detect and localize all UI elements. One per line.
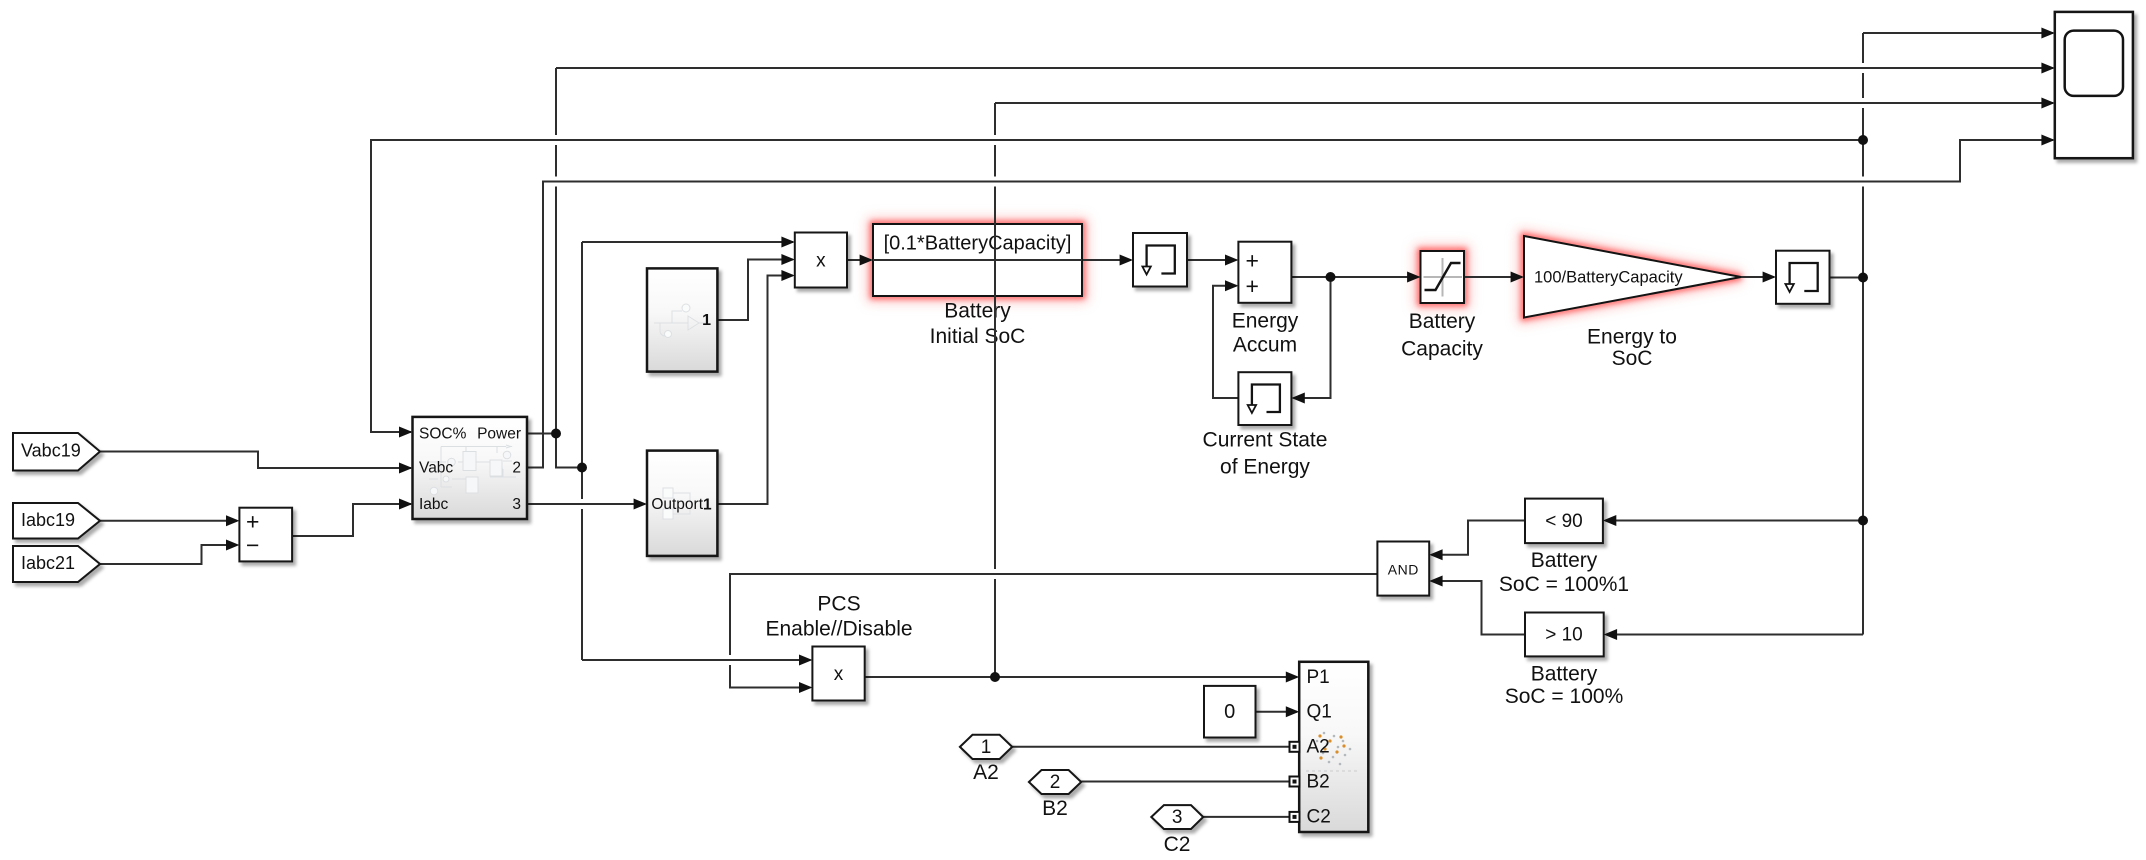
wire SoC feedback vertical trunk x=1863	[1862, 33, 1864, 635]
CROSSOVER PATCHES	[549, 63, 1870, 665]
GLOW LAYER	[873, 224, 1741, 318]
svg-text:B2: B2	[1042, 797, 1068, 820]
arrow into SOC% input	[399, 427, 413, 438]
svg-text:PCS: PCS	[817, 593, 860, 616]
logic block AND	[1377, 542, 1429, 596]
svg-text:Energy: Energy	[1232, 310, 1299, 333]
product block x top	[795, 233, 847, 288]
sum block Energy Accum	[1238, 242, 1291, 303]
arrow into accum in2	[1225, 280, 1238, 291]
svg-text:Iabc: Iabc	[419, 496, 449, 513]
node SoC trunk lower branch	[1858, 516, 1868, 526]
memory block 1	[1133, 233, 1187, 287]
wire hexport1 to A2	[1012, 746, 1291, 748]
node SoC trunk top branch	[1858, 135, 1868, 145]
arrow into gain	[1511, 272, 1524, 283]
arrow into Vabc input	[399, 463, 413, 474]
arrow into scope in3	[2041, 98, 2054, 109]
crossover at 582,504	[575, 499, 589, 509]
svg-text:2: 2	[1050, 772, 1061, 793]
wire Outport1 output to product input 3	[718, 276, 794, 505]
wire P1 branch vertical x=995	[994, 103, 996, 677]
svg-text:Battery: Battery	[944, 300, 1011, 323]
crossover at 730,660	[723, 655, 737, 665]
svg-text:Vabc19: Vabc19	[21, 441, 81, 461]
ARROWHEADS	[226, 28, 2055, 822]
svg-text:Current State: Current State	[1203, 429, 1328, 452]
arrow into memory3	[1763, 272, 1776, 283]
arrow into scope in2	[2041, 63, 2054, 74]
svg-text:Battery: Battery	[1531, 549, 1598, 572]
svg-text:Initial SoC: Initial SoC	[930, 325, 1026, 348]
arrow into memory1	[1120, 255, 1133, 266]
arrow into P1	[1286, 672, 1299, 683]
compare block greater than 10	[1525, 613, 1604, 657]
arrow into product in1	[781, 237, 794, 248]
label Battery SoC = 100%1	[1499, 549, 1629, 596]
saturation block Battery Capacity with red glow	[1421, 251, 1465, 303]
node Power to PCS branch	[577, 463, 587, 473]
label Battery Capacity	[1401, 310, 1483, 360]
memory block 3	[1776, 251, 1830, 304]
node accum output branch	[1326, 272, 1336, 282]
crossover at 995,574 repaint	[988, 569, 1002, 579]
svg-text:−: −	[246, 532, 259, 558]
port square C2	[1290, 812, 1300, 822]
svg-text:Power: Power	[477, 425, 521, 442]
svg-text:Vabc: Vabc	[419, 459, 453, 476]
label Battery Initial SoC	[930, 300, 1026, 349]
svg-text:Battery: Battery	[1409, 310, 1476, 333]
scope block	[2055, 12, 2133, 158]
crossover at 556,181.5	[549, 177, 563, 187]
wire P1 branch to scope input 3	[995, 102, 2053, 104]
constant zero block	[1204, 686, 1256, 738]
wire Iabc19 to sum plus input	[100, 520, 237, 522]
arrow into product in2	[781, 254, 794, 265]
crossover at 995,181.5	[988, 177, 1002, 187]
wire hexport2 to B2	[1081, 781, 1291, 783]
product block x PCS	[812, 647, 864, 701]
wire hexport3 to C2	[1203, 816, 1291, 818]
Outport1 block	[647, 451, 717, 556]
crossover at 995,140 repaint	[988, 135, 1002, 145]
node SoC trunk mid branch	[1858, 273, 1868, 283]
label PCS Enable//Disable	[765, 593, 912, 641]
svg-text:Accum: Accum	[1233, 334, 1297, 357]
label Battery SoC = 100%	[1505, 662, 1624, 708]
subsystem with port 1	[647, 268, 717, 371]
arrow into current state memory	[1291, 393, 1304, 404]
constant Battery Initial SoC with red glow	[873, 224, 1082, 296]
svg-text:1: 1	[981, 737, 992, 758]
label Energy to SoC	[1587, 325, 1677, 370]
crossover at 556,140	[549, 135, 563, 145]
arrow into saturation	[1407, 272, 1420, 283]
arrow into greater-than-10	[1604, 629, 1617, 640]
node Power branch	[551, 429, 561, 439]
wire current state memory output to accum input 2	[1213, 286, 1238, 398]
svg-text:x: x	[816, 251, 826, 272]
wire subsystem1 output to product input 2	[718, 260, 794, 321]
label Energy Accum	[1232, 310, 1299, 357]
svg-text:x: x	[834, 664, 844, 685]
port square B2	[1290, 777, 1300, 787]
svg-text:100/BatteryCapacity: 100/BatteryCapacity	[1534, 269, 1683, 287]
arrow into scope in4	[2041, 135, 2054, 146]
wire trunk to scope input 1	[1863, 32, 2053, 34]
svg-text:B2: B2	[1307, 771, 1330, 792]
svg-text:Q1: Q1	[1307, 702, 1332, 723]
arrow into less-than-90	[1603, 515, 1616, 526]
hexagon port 3	[1151, 805, 1203, 829]
tag Vabc19	[13, 433, 100, 471]
arrow into PCS product in1	[799, 655, 812, 666]
wire trunk feedback to SOC% input	[371, 140, 1863, 432]
wire energy accum output to saturation	[1291, 276, 1418, 278]
memory block Current State of Energy	[1238, 372, 1291, 425]
arrow into AND in1	[1429, 549, 1442, 560]
arrow into AND in2	[1429, 576, 1442, 587]
sum block S1	[239, 508, 292, 562]
arrow into Q1	[1286, 706, 1299, 717]
wire memory3 output to trunk	[1830, 277, 1864, 279]
svg-text:Capacity: Capacity	[1401, 338, 1483, 361]
crossover at 1863,68	[1856, 63, 1870, 73]
wire Vabc19 to Vabc input	[100, 452, 411, 469]
arrow into sum minus	[226, 540, 239, 551]
wire Iabc21 to sum minus input	[100, 545, 237, 564]
svg-text:< 90: < 90	[1545, 511, 1583, 532]
tag Iabc21	[13, 546, 100, 582]
crossover at 995,574	[988, 569, 1002, 579]
wire Power branch to scope input 2	[556, 67, 2053, 69]
svg-text:Enable//Disable: Enable//Disable	[765, 618, 912, 641]
svg-text:+: +	[1246, 247, 1259, 273]
svg-text:A2: A2	[1307, 737, 1330, 758]
svg-text:Iabc19: Iabc19	[21, 510, 75, 530]
glow of constant Battery Initial SoC	[873, 224, 1082, 296]
svg-text:+: +	[1246, 273, 1259, 299]
arrow into sum plus	[226, 515, 239, 526]
wire Power output branch	[527, 68, 811, 660]
svg-text:2: 2	[512, 459, 521, 476]
glow of gain triangle	[1524, 236, 1741, 318]
subsystem P1 Q1 A2 B2 C2	[1299, 662, 1368, 832]
wire trunk to greater-than-10 input	[1606, 634, 1863, 636]
svg-text:Outport1: Outport1	[651, 496, 712, 513]
crossover at 995,181.5 repaint	[988, 177, 1002, 187]
arrow into PCS product in2	[799, 682, 812, 693]
port square A2	[1290, 742, 1300, 752]
glow of saturation block	[1421, 251, 1465, 303]
svg-text:1: 1	[702, 312, 711, 329]
arrow into product in3	[781, 270, 794, 281]
subsystem SOC%/Power PCS block	[413, 417, 528, 519]
arrow into Outport1	[634, 499, 647, 510]
label Current State of Energy	[1203, 429, 1328, 479]
wire constant output to memory1	[1082, 259, 1131, 261]
wire accum loop down to current state memory	[1294, 277, 1331, 398]
arrow into accum in1	[1225, 255, 1238, 266]
wire less-than-90 output to AND input 1	[1432, 521, 1526, 555]
svg-text:A2: A2	[973, 761, 999, 784]
svg-text:Energy to: Energy to	[1587, 325, 1677, 348]
svg-text:SoC: SoC	[1612, 347, 1653, 370]
gain Energy to SoC with red glow	[1524, 236, 1741, 318]
svg-text:SoC = 100%: SoC = 100%	[1505, 685, 1624, 708]
arrow into constant	[860, 255, 873, 266]
wire port3 output to Outport1	[527, 503, 645, 505]
arrow into Iabc input	[399, 499, 413, 510]
svg-text:Iabc21: Iabc21	[21, 553, 75, 573]
wire port2 output to scope input 4	[527, 140, 2053, 468]
hexagon port 2	[1029, 770, 1081, 794]
svg-text:AND: AND	[1388, 562, 1419, 578]
svg-text:+: +	[246, 508, 259, 534]
TOP WIRE	[988, 103, 1002, 682]
wire sum output to Iabc input	[292, 504, 411, 536]
svg-text:C2: C2	[1307, 807, 1331, 828]
crossover at 995,140	[988, 135, 1002, 145]
wire saturation output to gain	[1464, 276, 1522, 278]
svg-text:of Energy: of Energy	[1220, 456, 1310, 479]
wire gain output to memory3	[1741, 276, 1774, 278]
wire trunk to less-than-90 input	[1605, 520, 1863, 522]
svg-text:3: 3	[1172, 807, 1183, 828]
crossover at 1863,103	[1856, 98, 1870, 108]
svg-text:3: 3	[512, 496, 521, 513]
svg-text:> 10: > 10	[1545, 625, 1583, 646]
hexagon port 1	[960, 735, 1012, 759]
svg-text:0: 0	[1224, 701, 1235, 723]
compare block less than 90	[1525, 499, 1603, 543]
svg-text:SoC = 100%1: SoC = 100%1	[1499, 573, 1629, 596]
svg-text:C2: C2	[1164, 833, 1191, 856]
svg-text:SOC%: SOC%	[419, 425, 467, 442]
wire greater-than-10 output to AND input 2	[1432, 581, 1526, 635]
arrow into scope in1	[2041, 28, 2054, 39]
svg-text:[0.1*BatteryCapacity]: [0.1*BatteryCapacity]	[884, 233, 1072, 255]
node PCS output branch	[990, 672, 1000, 682]
svg-text:P1: P1	[1307, 667, 1330, 688]
wire AND output to PCS product input 2	[730, 574, 1377, 688]
wire product output to initial SoC constant	[847, 259, 871, 261]
wire PCS product output to P1	[865, 676, 1297, 678]
wire memory1 output to energy accum	[1187, 259, 1237, 261]
crossover at 1863,181.5	[1856, 177, 1870, 187]
tag Iabc19	[13, 503, 100, 539]
svg-text:Battery: Battery	[1531, 662, 1598, 685]
wire zero constant to Q1	[1256, 711, 1298, 713]
